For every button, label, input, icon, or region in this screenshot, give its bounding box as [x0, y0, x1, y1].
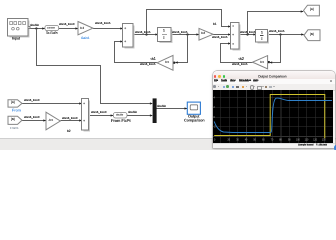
label sfix16_En15 after Sum1 [135, 31, 150, 34]
gain b2 [46, 112, 60, 130]
x tick labels [214, 139, 326, 141]
label Gain1 blue [81, 37, 90, 40]
label double in FromFixPt [116, 114, 123, 116]
traffic light green [223, 75, 225, 77]
wire reference double path to Mux [36, 29, 152, 105]
gain -a2 [253, 56, 270, 69]
scope window Output Comparison [213, 71, 335, 149]
window title [258, 75, 287, 78]
label sfix16_En15 after Sum2 [240, 31, 255, 34]
wire gain b1 to Sum2 [213, 33, 231, 35]
menu Help [253, 79, 258, 82]
menu bar [213, 79, 335, 84]
label sfix16_En15 under -a2 wire [232, 63, 247, 66]
svg-text:120: 120 [313, 139, 318, 141]
plot svg grid and curves [213, 90, 333, 143]
gain Gain1 [78, 22, 93, 35]
label Input [12, 37, 20, 41]
grid horizontal lines [213, 98, 333, 137]
label sfix16_En10 after ToFixPt [59, 23, 74, 26]
from tag A [8, 100, 22, 107]
wire Gain1 to Sum1 [93, 27, 123, 29]
gain b1 [199, 28, 213, 40]
label double after Mux [157, 105, 166, 108]
diagram svg layer [0, 0, 336, 150]
svg-text:50: 50 [254, 139, 257, 141]
label -a2 [238, 57, 244, 61]
label From blue [12, 109, 21, 113]
grid vertical lines [221, 90, 325, 143]
svg-text:110: 110 [305, 139, 309, 141]
svg-text:40: 40 [245, 139, 248, 141]
svg-text:100: 100 [296, 139, 301, 141]
svg-text:20: 20 [228, 139, 231, 141]
label sfix16_En15 after Gain1 [95, 22, 110, 25]
label sfix16_En10 after From B [24, 116, 39, 119]
svg-text:80: 80 [279, 139, 282, 141]
label 0.5 in -a1 [165, 61, 169, 64]
sum Sum1 [123, 24, 135, 49]
wire Mux to Scope [157, 107, 188, 109]
svg-text:30: 30 [236, 139, 239, 141]
label sfix16_En10 after b2 [62, 117, 77, 120]
label double (input wire) [30, 24, 39, 27]
wire tap down to gain -a1 [175, 35, 188, 64]
label [A] from [11, 101, 15, 104]
wire From B to gain b2 [22, 119, 46, 121]
scope block Output Comparison [187, 102, 200, 114]
label sfix16_En15 after UnitDelay1 [172, 31, 187, 34]
sum Sum2 [231, 23, 241, 51]
label sfix16_En10 after Sum3 [91, 111, 106, 114]
menu right icon [330, 80, 332, 82]
label 1/z UnitDelay1 [163, 29, 165, 32]
wire Sum1 out to UnitDelay1 [133, 33, 158, 35]
trace yellow reference [214, 94, 325, 138]
mux Mux [153, 98, 157, 123]
label [A] goto [310, 8, 314, 11]
label -a1 [150, 57, 156, 61]
label sfix16_En15 under -a1 wire [140, 63, 155, 66]
block UnitDelay1 [158, 28, 173, 43]
label sfix16_En15 below b1 wire [212, 36, 227, 39]
label 0.5 in -a2 [260, 61, 264, 64]
from tag B [8, 116, 22, 124]
label sfix16_En15 after UnitDelay2 [269, 30, 284, 33]
canvas bottom divider [0, 138, 336, 139]
block Input [8, 19, 31, 38]
blue corner badge [334, 145, 336, 151]
goto tag B [304, 30, 320, 41]
label double after FromFixPt [128, 111, 137, 114]
svg-text:130: 130 [322, 139, 327, 141]
label sfix16_En10 after From A [24, 99, 39, 102]
block From FixPt convert [113, 112, 127, 118]
wire Sum2 out to UnitDelay2 [239, 33, 256, 35]
traffic light yellow [218, 75, 220, 77]
title bar [213, 71, 335, 81]
wire bypass Sum1 to Sum2 top [147, 10, 232, 35]
y tick labels [214, 97, 217, 128]
label convert (ToFixPt) [47, 27, 55, 29]
label [B] goto [310, 33, 314, 36]
svg-text:70: 70 [271, 139, 274, 141]
wire Input to ToFixPt [29, 27, 46, 29]
wire gain -a1 out to Sum1 port2 [115, 40, 158, 62]
wire Sum3 to FromFixPt [89, 114, 114, 116]
toolbar icons [213, 85, 216, 88]
label 0.3 in Gain1 [80, 27, 84, 30]
label From1 blue [10, 127, 19, 130]
wire gain b2 to Sum3 [60, 119, 82, 121]
gain -a1 [157, 55, 175, 70]
wire ToFixPt to Gain1 [59, 27, 79, 29]
label b1 [213, 23, 217, 26]
menu text overlay smudges [214, 80, 218, 82]
svg-text:90: 90 [288, 139, 291, 141]
wire UnitDelay1 to Gain b1 [171, 33, 199, 35]
label -0.5 in gain b2 [48, 119, 53, 122]
wire tap down to gain -a2 [269, 35, 280, 64]
wire Sum2 out up to Goto A [248, 10, 304, 34]
svg-text:60: 60 [262, 139, 265, 141]
menu View [230, 79, 236, 82]
menu Simulation [239, 79, 251, 82]
label Output Comparison [188, 115, 199, 119]
wire gain -a2 out to Sum2 port3 [221, 42, 253, 62]
label From FixPt [111, 119, 131, 123]
menu File [214, 79, 218, 82]
wire From A to Sum3 [22, 102, 82, 104]
svg-text:0: 0 [214, 140, 216, 142]
label To FixPt [46, 32, 58, 35]
label [B] from [11, 118, 15, 121]
traffic light red [214, 75, 216, 77]
sum Sum3 [82, 99, 90, 132]
trace blue fixed point [214, 98, 332, 133]
block To FixPt convert [45, 25, 59, 30]
plot area [213, 90, 333, 143]
label 0.6 in gain b1 [201, 32, 205, 35]
label b2 [67, 130, 71, 133]
goto tag A [304, 5, 320, 16]
menu Tools [221, 79, 227, 82]
wire UnitDelay2 to Goto B [268, 33, 305, 35]
wire FromFixPt to Mux [127, 114, 153, 116]
block UnitDelay2 [256, 30, 269, 44]
status bar [213, 143, 335, 149]
toolbar [213, 84, 335, 91]
label 1/z UnitDelay2 [261, 31, 263, 34]
canvas bottom gray strip [0, 139, 336, 151]
